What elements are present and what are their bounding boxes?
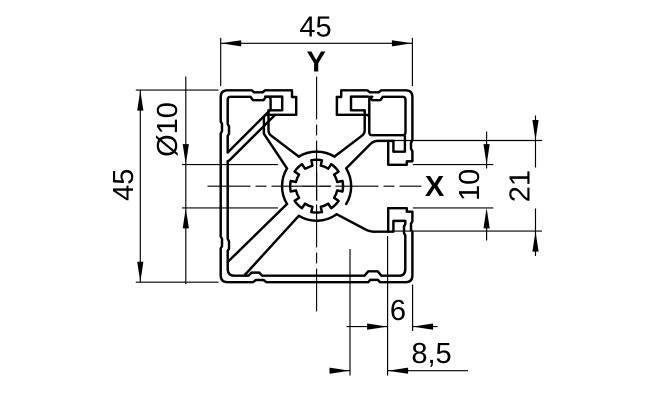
svg-text:6: 6 bbox=[390, 295, 406, 327]
svg-text:Ø10: Ø10 bbox=[152, 102, 184, 157]
svg-text:10: 10 bbox=[454, 169, 486, 201]
svg-text:8,5: 8,5 bbox=[411, 338, 451, 370]
svg-text:X: X bbox=[425, 171, 445, 203]
svg-text:45: 45 bbox=[299, 11, 331, 43]
svg-text:21: 21 bbox=[505, 170, 537, 202]
svg-text:Y: Y bbox=[307, 47, 326, 79]
svg-text:45: 45 bbox=[108, 169, 140, 201]
